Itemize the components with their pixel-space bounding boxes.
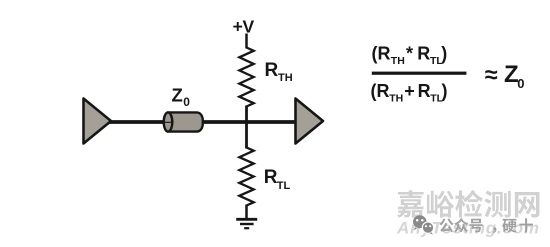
svg-text:TL: TL (277, 180, 291, 192)
svg-text:): ) (442, 81, 448, 101)
svg-text:(R: (R (371, 81, 390, 101)
svg-text:≈: ≈ (485, 61, 498, 87)
svg-text:R: R (265, 60, 279, 81)
svg-text:+: + (404, 81, 415, 101)
svg-text:R: R (418, 81, 431, 101)
svg-text:R: R (264, 167, 278, 188)
svg-text:0: 0 (183, 95, 190, 109)
svg-text:R: R (417, 44, 430, 64)
svg-text:TH: TH (391, 55, 405, 67)
svg-text:0: 0 (517, 76, 524, 91)
svg-text:TH: TH (389, 92, 403, 104)
svg-text:(R: (R (372, 44, 391, 64)
svg-text:): ) (441, 44, 447, 64)
svg-text:Z: Z (172, 85, 183, 106)
svg-text:+V: +V (233, 17, 255, 37)
svg-text:*: * (406, 44, 413, 64)
svg-text:TH: TH (278, 72, 293, 84)
